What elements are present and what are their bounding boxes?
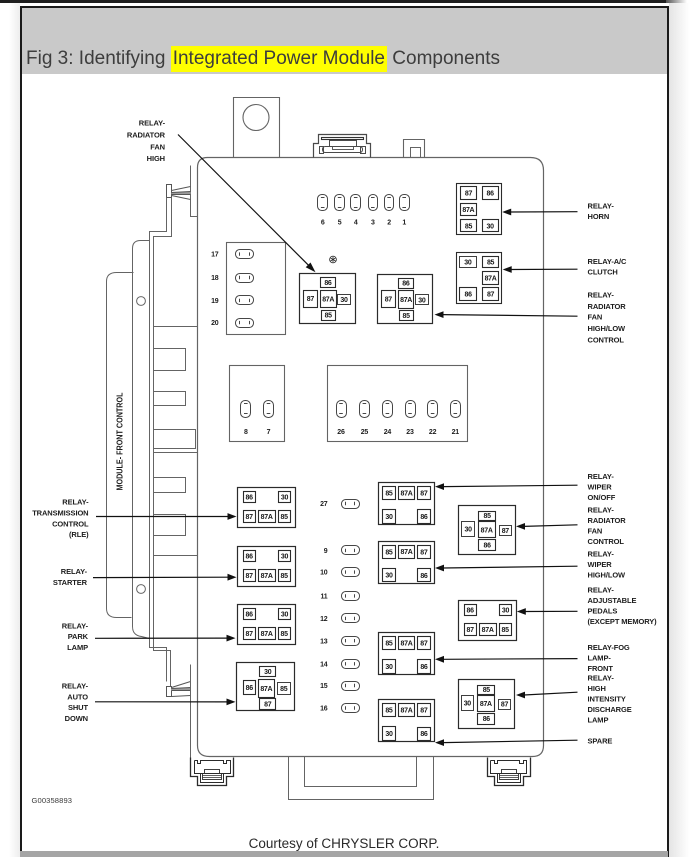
arrow relay a/c clutch (503, 266, 512, 273)
left outer bracket (107, 273, 134, 618)
svg-text:87A: 87A (485, 276, 497, 283)
svg-text:24: 24 (384, 429, 392, 436)
svg-text:RADIATOR: RADIATOR (588, 302, 627, 311)
fuse 10 (342, 568, 360, 577)
left inner bracket (133, 241, 150, 639)
svg-text:85: 85 (281, 573, 289, 580)
left connector wide tooth (154, 430, 196, 449)
arrow relay radiator fan high/low control (435, 311, 444, 318)
arrow relay horn (502, 209, 511, 216)
fuse 22 (428, 401, 438, 418)
fuse 14 (342, 660, 360, 669)
svg-text:87A: 87A (480, 701, 492, 708)
svg-text:86: 86 (246, 611, 254, 618)
fuse 3 (369, 195, 378, 211)
fuse 15 (342, 682, 360, 691)
fuse 4 (351, 195, 361, 211)
svg-text:HIGH/LOW: HIGH/LOW (588, 571, 627, 580)
left lower retainer prong (167, 687, 172, 697)
arrow relay adjustable pedals (517, 608, 526, 615)
left connector tooth 3 (154, 478, 186, 493)
svg-text:13: 13 (320, 638, 328, 645)
relay fog lamp front box (379, 633, 435, 675)
left connector upper vertical line (191, 166, 198, 217)
svg-text:PEDALS: PEDALS (588, 607, 618, 616)
circled asterisk note symbol (330, 256, 337, 263)
left connector hole upper (137, 297, 146, 306)
svg-text:86: 86 (420, 573, 428, 580)
svg-text:30: 30 (264, 669, 272, 676)
svg-text:HORN: HORN (588, 212, 610, 221)
svg-text:RELAY-: RELAY- (61, 567, 88, 576)
svg-text:87: 87 (246, 514, 254, 521)
svg-text:85: 85 (502, 627, 510, 634)
left connector tooth 1 (154, 349, 186, 371)
bottom-right mounting bracket (488, 758, 531, 786)
arrow spare relay (435, 739, 444, 746)
svg-text:22: 22 (429, 429, 437, 436)
svg-text:86: 86 (484, 542, 492, 549)
svg-text:HIGH: HIGH (147, 154, 165, 163)
svg-text:RELAY-: RELAY- (588, 201, 615, 210)
svg-text:30: 30 (385, 664, 393, 671)
relay high intensity discharge lamp box (459, 680, 515, 729)
svg-text:87A: 87A (401, 640, 413, 647)
left connector divider lines (154, 326, 198, 328)
svg-text:19: 19 (211, 298, 219, 305)
svg-text:85: 85 (325, 313, 333, 320)
svg-text:30: 30 (385, 573, 393, 580)
fuse 16 (342, 704, 360, 713)
fuse 12 (342, 614, 360, 623)
spare relay box (379, 700, 435, 742)
fuse 27 (342, 500, 360, 509)
svg-text:WIPER: WIPER (588, 483, 613, 492)
svg-text:87A: 87A (400, 297, 412, 304)
svg-text:30: 30 (418, 297, 426, 304)
arrow relay transmission control (228, 513, 237, 520)
svg-text:CONTROL: CONTROL (588, 537, 625, 546)
svg-text:85: 85 (280, 686, 288, 693)
svg-text:87: 87 (502, 528, 510, 535)
svg-text:LAMP: LAMP (588, 716, 609, 725)
svg-text:30: 30 (465, 527, 473, 534)
svg-text:23: 23 (406, 429, 414, 436)
fuse 26 (337, 401, 347, 418)
svg-text:85: 85 (385, 708, 393, 715)
svg-text:85: 85 (385, 641, 393, 648)
bottom-left mounting bracket (191, 758, 234, 786)
fuse 11 (342, 592, 360, 601)
svg-text:3: 3 (371, 220, 375, 227)
svg-text:85: 85 (487, 259, 495, 266)
fuse 17 (236, 250, 254, 259)
svg-text:WIPER: WIPER (588, 560, 613, 569)
svg-text:30: 30 (502, 607, 510, 614)
left connector hole lower (137, 585, 146, 594)
svg-text:86: 86 (420, 731, 428, 738)
left connector tooth 2 (154, 392, 186, 406)
fuse box 17-20 (227, 243, 286, 335)
fuse 13 (342, 637, 360, 646)
svg-text:87: 87 (307, 296, 315, 303)
svg-text:87: 87 (487, 292, 495, 299)
svg-text:RELAY-: RELAY- (62, 682, 89, 691)
svg-text:7: 7 (267, 429, 271, 436)
relay radiator fan high/low control (86/87-87A-30/85) (378, 275, 433, 324)
svg-text:RADIATOR: RADIATOR (588, 516, 627, 525)
relay wiper high/low box (379, 542, 435, 584)
arrow relay park lamp (227, 635, 236, 642)
svg-text:86: 86 (487, 191, 495, 198)
svg-text:LAMP-: LAMP- (588, 654, 612, 663)
svg-text:86: 86 (467, 607, 475, 614)
svg-text:18: 18 (211, 275, 219, 282)
svg-text:RELAY-: RELAY- (588, 472, 615, 481)
left connector step below upper prong (150, 198, 167, 682)
svg-text:FAN: FAN (588, 527, 603, 536)
svg-text:2: 2 (387, 220, 391, 227)
svg-text:10: 10 (320, 570, 328, 577)
svg-text:85: 85 (281, 631, 289, 638)
svg-text:HIGH/LOW: HIGH/LOW (588, 324, 627, 333)
arrow relay wiper on/off (435, 483, 444, 490)
svg-text:30: 30 (385, 731, 393, 738)
svg-text:RELAY-: RELAY- (588, 505, 615, 514)
svg-text:87: 87 (420, 491, 428, 498)
svg-text:(EXCEPT MEMORY): (EXCEPT MEMORY) (588, 617, 658, 626)
svg-text:RELAY-: RELAY- (62, 498, 89, 507)
svg-text:85: 85 (484, 513, 492, 520)
svg-text:30: 30 (464, 700, 472, 707)
svg-text:CONTROL: CONTROL (588, 336, 625, 345)
svg-text:(RLE): (RLE) (69, 530, 89, 539)
svg-text:87: 87 (467, 627, 475, 634)
svg-text:30: 30 (281, 494, 289, 501)
fuse 18 (236, 274, 254, 283)
svg-text:17: 17 (211, 252, 219, 259)
svg-text:6: 6 (321, 220, 325, 227)
svg-text:9: 9 (324, 548, 328, 555)
svg-text:TRANSMISSION: TRANSMISSION (32, 509, 88, 518)
svg-text:ON/OFF: ON/OFF (588, 493, 616, 502)
svg-text:86: 86 (324, 280, 332, 287)
svg-text:87: 87 (501, 702, 509, 709)
svg-text:85: 85 (281, 514, 289, 521)
relay park lamp box (238, 605, 296, 645)
fuse 19 (236, 296, 254, 305)
svg-text:86: 86 (465, 292, 473, 299)
fuse 21 (451, 401, 461, 418)
fuse box 26-21 (328, 366, 468, 442)
svg-text:85: 85 (385, 491, 393, 498)
arrow relay starter (228, 574, 237, 581)
svg-text:26: 26 (337, 429, 345, 436)
svg-text:STARTER: STARTER (53, 578, 88, 587)
svg-text:30: 30 (464, 259, 472, 266)
svg-text:30: 30 (281, 611, 289, 618)
svg-text:86: 86 (246, 553, 254, 560)
svg-text:87A: 87A (401, 490, 413, 497)
bottom-center connector outer (289, 757, 434, 800)
svg-text:RADIATOR: RADIATOR (127, 130, 166, 139)
svg-text:CLUTCH: CLUTCH (588, 267, 618, 276)
svg-text:5: 5 (338, 220, 342, 227)
svg-text:RELAY-: RELAY- (62, 621, 89, 630)
svg-text:11: 11 (321, 594, 328, 601)
fuse 20 (236, 319, 254, 328)
svg-text:86: 86 (246, 685, 254, 692)
svg-text:RELAY-: RELAY- (588, 291, 615, 300)
svg-text:87A: 87A (261, 631, 273, 638)
fuse 25 (360, 401, 370, 418)
svg-text:87: 87 (420, 708, 428, 715)
svg-text:4: 4 (354, 220, 358, 227)
svg-text:25: 25 (361, 429, 369, 436)
svg-text:87A: 87A (401, 708, 413, 715)
svg-text:87: 87 (465, 191, 473, 198)
relay auto shut down box (30/86-87A-85/87) (237, 663, 295, 711)
svg-text:CONTROL: CONTROL (52, 519, 89, 528)
svg-text:27: 27 (320, 501, 328, 508)
svg-text:86: 86 (246, 494, 254, 501)
left connector lower vertical line to bottom bracket (190, 665, 192, 760)
relay starter box (238, 547, 296, 587)
svg-text:86: 86 (483, 716, 491, 723)
svg-text:RELAY-: RELAY- (588, 674, 615, 683)
left connector tooth 4 (154, 515, 186, 536)
arrow relay wiper high/low (435, 565, 444, 572)
svg-text:G00358893: G00358893 (32, 796, 73, 805)
svg-text:87A: 87A (261, 573, 273, 580)
svg-text:PARK: PARK (68, 632, 89, 641)
bottom-center connector inner (305, 757, 417, 787)
svg-text:RELAY-: RELAY- (588, 586, 615, 595)
arrow relay fog lamp front (435, 656, 444, 663)
svg-text:30: 30 (385, 514, 393, 521)
svg-text:87: 87 (246, 573, 254, 580)
fuse 23 (406, 401, 416, 418)
svg-text:16: 16 (320, 706, 328, 713)
fuse 2 (385, 195, 394, 211)
relay adjustable pedals box (459, 601, 517, 641)
svg-text:FRONT: FRONT (588, 664, 614, 673)
svg-text:30: 30 (340, 297, 348, 304)
svg-text:86: 86 (420, 514, 428, 521)
svg-text:85: 85 (403, 313, 411, 320)
svg-text:30: 30 (487, 223, 495, 230)
svg-text:21: 21 (452, 429, 460, 436)
svg-text:85: 85 (465, 223, 473, 230)
svg-text:12: 12 (320, 616, 328, 623)
relay radiator fan high (86/87-87A-30/85) (300, 274, 356, 324)
svg-text:87: 87 (246, 631, 254, 638)
svg-text:15: 15 (320, 683, 328, 690)
svg-text:LAMP: LAMP (67, 643, 88, 652)
fuse 1 (400, 195, 410, 211)
svg-text:8: 8 (244, 429, 248, 436)
arrow relay auto shut down (227, 699, 236, 706)
arrow relay radiator fan control (516, 523, 525, 530)
arrow relay high intensity discharge lamp (516, 692, 525, 699)
top small tab (404, 140, 425, 158)
fuse 9 (342, 546, 360, 555)
svg-text:14: 14 (320, 661, 328, 668)
svg-text:RELAY-: RELAY- (139, 118, 166, 127)
svg-text:INTENSITY: INTENSITY (588, 695, 626, 704)
relay transmission control (RLE) box (238, 488, 296, 528)
svg-text:MODULE- FRONT CONTROL: MODULE- FRONT CONTROL (116, 392, 125, 490)
svg-text:1: 1 (402, 220, 406, 227)
svg-text:87: 87 (420, 549, 428, 556)
svg-text:87A: 87A (401, 549, 413, 556)
svg-text:87A: 87A (260, 686, 272, 693)
relay a/c clutch box (457, 253, 502, 304)
arrow to relay radiator fan high (diagonal) (178, 135, 309, 266)
top mounting tab with hole (234, 98, 280, 158)
svg-text:SHUT: SHUT (68, 703, 89, 712)
svg-text:85: 85 (483, 687, 491, 694)
svg-text:87A: 87A (481, 527, 493, 534)
svg-text:FAN: FAN (588, 313, 603, 322)
svg-text:RELAY-FOG: RELAY-FOG (588, 643, 630, 652)
svg-text:HIGH: HIGH (588, 684, 606, 693)
svg-text:87A: 87A (462, 207, 474, 214)
svg-text:87A: 87A (322, 296, 334, 303)
svg-text:86: 86 (402, 281, 410, 288)
svg-text:87: 87 (264, 701, 272, 708)
svg-text:85: 85 (385, 549, 393, 556)
svg-text:RELAY-: RELAY- (588, 550, 615, 559)
svg-text:87: 87 (385, 297, 393, 304)
relay wiper on/off box (379, 483, 435, 525)
IPM module body outline (198, 158, 544, 757)
fuse 8 (241, 401, 251, 418)
svg-text:DOWN: DOWN (65, 714, 88, 723)
top latch connector (314, 135, 371, 158)
svg-text:86: 86 (420, 664, 428, 671)
fuse 5 (335, 195, 345, 211)
relay horn box (457, 184, 502, 235)
relay radiator fan control box (459, 506, 516, 555)
svg-text:87A: 87A (482, 627, 494, 634)
left upper retainer prong (167, 185, 172, 198)
svg-text:ADJUSTABLE: ADJUSTABLE (588, 596, 637, 605)
svg-text:RELAY-A/C: RELAY-A/C (588, 257, 628, 266)
svg-text:SPARE: SPARE (588, 737, 613, 746)
svg-text:FAN: FAN (150, 143, 165, 152)
fuse 7 (264, 401, 274, 418)
svg-text:87A: 87A (261, 514, 273, 521)
svg-text:DISCHARGE: DISCHARGE (588, 705, 632, 714)
svg-text:20: 20 (211, 320, 219, 327)
fuse box 8-7 (230, 366, 285, 442)
svg-text:87: 87 (420, 641, 428, 648)
fuse 6 (318, 195, 328, 211)
svg-text:AUTO: AUTO (67, 692, 88, 701)
fuse 24 (383, 401, 393, 418)
svg-text:30: 30 (281, 553, 289, 560)
